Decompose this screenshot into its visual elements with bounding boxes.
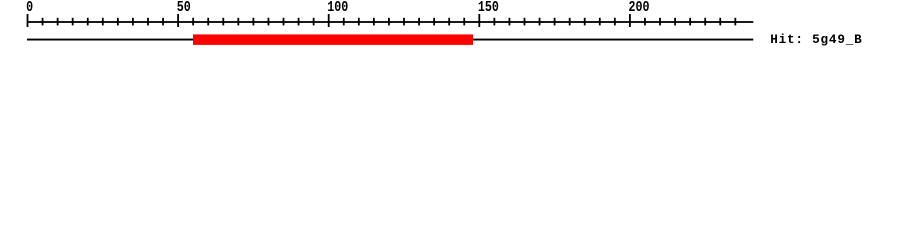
minor tick 160 <box>509 18 511 26</box>
svg-text:50: 50 <box>177 0 191 16</box>
minor tick 75 <box>253 18 255 26</box>
svg-text:Hit: 5g49_B: Hit: 5g49_B <box>770 32 862 47</box>
minor tick 25 <box>102 18 104 26</box>
hit bar (red, residues 55-148) <box>193 34 473 45</box>
minor tick 65 <box>222 18 224 26</box>
minor tick 120 <box>388 18 390 26</box>
minor tick 170 <box>539 18 541 26</box>
minor tick 15 <box>72 18 74 26</box>
minor tick 235 <box>734 18 736 26</box>
minor tick 225 <box>704 18 706 26</box>
minor tick 230 <box>719 18 721 26</box>
minor tick 105 <box>343 18 345 26</box>
minor tick 185 <box>584 18 586 26</box>
minor tick 180 <box>569 18 571 26</box>
minor tick 125 <box>403 18 405 26</box>
minor tick 55 <box>192 18 194 26</box>
minor tick 190 <box>599 18 601 26</box>
minor tick 110 <box>358 18 360 26</box>
major tick 0 <box>27 14 29 27</box>
minor tick 85 <box>283 18 285 26</box>
minor tick 5 <box>42 18 44 26</box>
svg-text:150: 150 <box>478 0 499 16</box>
minor tick 40 <box>147 18 149 26</box>
minor tick 70 <box>237 18 239 26</box>
minor tick 215 <box>674 18 676 26</box>
minor tick 20 <box>87 18 89 26</box>
minor tick 30 <box>117 18 119 26</box>
minor tick 145 <box>463 18 465 26</box>
minor tick 195 <box>614 18 616 26</box>
minor tick 95 <box>313 18 315 26</box>
major tick 100 <box>328 14 330 27</box>
minor tick 60 <box>207 18 209 26</box>
minor tick 45 <box>162 18 164 26</box>
major tick 200 <box>629 14 631 27</box>
minor tick 210 <box>659 18 661 26</box>
svg-text:200: 200 <box>629 0 650 16</box>
minor tick 175 <box>554 18 556 26</box>
minor tick 10 <box>57 18 59 26</box>
major tick 50 <box>177 14 179 27</box>
minor tick 165 <box>524 18 526 26</box>
minor tick 115 <box>373 18 375 26</box>
minor tick 155 <box>493 18 495 26</box>
svg-text:0: 0 <box>26 0 33 16</box>
minor tick 90 <box>298 18 300 26</box>
major tick 150 <box>478 14 480 27</box>
minor tick 140 <box>448 18 450 26</box>
query line <box>27 39 753 41</box>
minor tick 220 <box>689 18 691 26</box>
minor tick 130 <box>418 18 420 26</box>
minor tick 135 <box>433 18 435 26</box>
ruler line <box>27 21 753 23</box>
minor tick 205 <box>644 18 646 26</box>
minor tick 80 <box>268 18 270 26</box>
svg-text:100: 100 <box>327 0 348 16</box>
minor tick 35 <box>132 18 134 26</box>
